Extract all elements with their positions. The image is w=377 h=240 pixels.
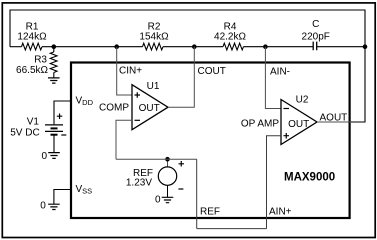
svg-text:C: C [312, 19, 319, 30]
wire AIN- drop [265, 47, 281, 109]
IC box MAX9000 [71, 63, 350, 219]
svg-text:0: 0 [155, 194, 161, 205]
svg-text:AOUT: AOUT [320, 112, 348, 123]
wire main rail segment R4 to C [244, 46, 314, 48]
svg-text:AIN-: AIN- [270, 66, 290, 77]
node junction AOUT [363, 44, 368, 49]
wire REF pin drop [196, 159, 198, 228]
svg-text:42.2kΩ: 42.2kΩ [214, 32, 246, 43]
wire AIN+ riser [267, 136, 282, 229]
ground below R3 [48, 78, 60, 83]
wire top rail [10, 10, 365, 47]
svg-text:0: 0 [40, 201, 46, 212]
resistor R1 [17, 21, 47, 50]
node junction CIN+ [114, 44, 119, 49]
svg-text:MAX9000: MAX9000 [284, 172, 335, 184]
svg-text:0: 0 [41, 151, 47, 162]
svg-text:VSS: VSS [76, 184, 93, 196]
ground below REF [155, 194, 173, 205]
svg-text:R3: R3 [34, 54, 47, 65]
svg-text:CIN+: CIN+ [119, 65, 142, 76]
resistor R2 [139, 21, 169, 50]
svg-text:AIN+: AIN+ [269, 207, 292, 218]
svg-text:COMP: COMP [99, 103, 129, 114]
wire REF rail [116, 158, 197, 160]
svg-text:VDD: VDD [76, 95, 94, 107]
ground below battery [41, 151, 59, 162]
svg-text:COUT: COUT [198, 66, 226, 77]
wire main rail segment C to right [317, 46, 365, 48]
wire REF to AIN+ external [197, 228, 267, 230]
svg-text:5V DC: 5V DC [10, 128, 39, 139]
ground below VSS [40, 201, 59, 212]
node junction REF [165, 157, 170, 162]
svg-text:OP AMP: OP AMP [241, 118, 279, 129]
wire CIN+ drop [117, 47, 132, 95]
svg-text:220pF: 220pF [302, 32, 330, 43]
battery V1 5V DC [10, 101, 71, 152]
svg-text:V1: V1 [27, 117, 40, 128]
svg-text:U1: U1 [147, 81, 160, 92]
wire U1 inverting input to REF [116, 120, 132, 159]
wire main rail segment left [10, 46, 22, 48]
node junction AIN- [263, 44, 268, 49]
svg-text:OUT: OUT [139, 103, 160, 114]
resistor R3 [16, 47, 57, 78]
voltage reference REF 1.23V [126, 159, 184, 197]
svg-text:REF: REF [200, 207, 220, 218]
node junction R3 [52, 44, 57, 49]
wire main rail segment R1 to R2 [42, 46, 143, 48]
svg-text:1.23V: 1.23V [126, 178, 152, 189]
wire U2 output AOUT [317, 121, 351, 123]
capacitor C [302, 19, 330, 50]
op-amp U2 [241, 95, 317, 145]
svg-text:66.5kΩ: 66.5kΩ [16, 65, 48, 76]
op-amp U1 comparator [99, 81, 168, 130]
svg-text:OUT: OUT [288, 119, 309, 130]
svg-text:154kΩ: 154kΩ [139, 32, 169, 43]
resistor R4 [214, 21, 246, 50]
wire AOUT feedback vertical [351, 47, 365, 122]
svg-text:U2: U2 [296, 95, 309, 106]
node junction COUT [192, 44, 197, 49]
svg-text:124kΩ: 124kΩ [17, 32, 47, 43]
wire U1 output to COUT [168, 47, 194, 107]
wire main rail segment R2 to R4 [163, 46, 223, 48]
wire VSS to ground [54, 190, 71, 205]
